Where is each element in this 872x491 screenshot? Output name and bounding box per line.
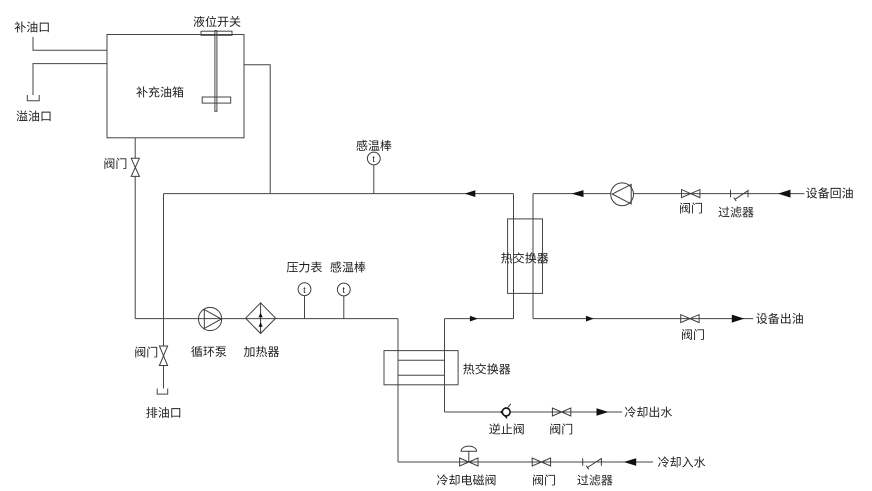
pump top right <box>611 183 634 206</box>
svg-text:过滤器: 过滤器 <box>718 204 754 221</box>
valve VB2 阀门 <box>681 315 690 323</box>
wire segment to vertical HX <box>445 318 514 320</box>
svg-text:液位开关: 液位开关 <box>193 13 241 30</box>
wire tank to 溢油口 overflow <box>33 64 107 95</box>
arrow terminal A8 冷却入水 <box>624 458 637 466</box>
wire left loop vertical <box>163 194 165 346</box>
svg-text:阀门: 阀门 <box>103 155 127 172</box>
svg-text:阀门: 阀门 <box>532 472 556 489</box>
filter F2 过滤器 <box>582 458 584 466</box>
svg-text:溢油口: 溢油口 <box>16 107 52 124</box>
level switch body on tank top <box>201 31 232 35</box>
svg-text:循环泵: 循环泵 <box>191 343 227 360</box>
heat exchanger 热交换器 vertical <box>508 219 543 294</box>
valve VB1 阀门 <box>682 190 691 198</box>
valve VB3 阀门 <box>552 408 561 416</box>
valve VB4 阀门 <box>532 458 541 466</box>
wire tank outlet right <box>244 65 270 194</box>
svg-text:压力表: 压力表 <box>286 259 322 276</box>
svg-text:逆止阀: 逆止阀 <box>489 421 525 438</box>
wire main supply pipe <box>135 318 398 320</box>
arrow terminal A7 冷却出水 <box>597 408 609 416</box>
gauge 感温棒 <box>337 283 350 296</box>
svg-text:阀门: 阀门 <box>549 421 573 438</box>
port 溢油口 bracket <box>27 95 39 101</box>
svg-text:t: t <box>342 285 345 296</box>
gauge 压力表 <box>298 283 311 296</box>
wire return pipe left segment <box>164 193 514 195</box>
tank 补充油箱 <box>107 35 244 138</box>
wire cooling out line <box>445 411 623 413</box>
svg-text:排油口: 排油口 <box>146 404 182 421</box>
svg-text:冷却出水: 冷却出水 <box>624 404 672 421</box>
level switch rod <box>215 31 217 112</box>
wire vertical HX right pass <box>532 194 534 319</box>
sensor 感温棒 top circle <box>367 152 380 165</box>
svg-text:感温棒: 感温棒 <box>330 259 366 276</box>
svg-text:加热器: 加热器 <box>244 343 280 360</box>
valve V1 阀门 under tank <box>131 158 139 167</box>
filter F1 过滤器 <box>730 190 732 198</box>
svg-text:设备出油: 设备出油 <box>756 310 804 327</box>
level switch float <box>202 97 231 103</box>
svg-text:热交换器: 热交换器 <box>501 250 549 267</box>
arrow flow right A5 <box>586 316 594 322</box>
wire return pipe right segment <box>533 193 611 195</box>
svg-text:设备回油: 设备回油 <box>806 184 854 201</box>
valve V2 阀门 drain <box>159 346 167 356</box>
svg-text:过滤器: 过滤器 <box>577 472 613 489</box>
wire tank drain upper <box>134 138 136 159</box>
wire 补油口 inlet to tank <box>33 37 107 50</box>
svg-text:感温棒: 感温棒 <box>356 137 392 154</box>
heat exchanger 热交换器 horizontal <box>384 351 458 385</box>
svg-text:补油口: 补油口 <box>14 18 50 35</box>
svg-text:热交换器: 热交换器 <box>463 361 511 378</box>
check valve 逆止阀 <box>506 404 511 411</box>
wire vertical HX left pass <box>513 194 515 319</box>
svg-text:补充油箱: 补充油箱 <box>136 84 184 101</box>
wire cooling in line <box>398 461 653 463</box>
svg-text:t: t <box>372 154 375 165</box>
wire HX right pass vertical <box>444 319 446 412</box>
wire to drain port <box>163 366 165 389</box>
port 排油口 bracket <box>157 389 168 395</box>
wire supply down into horizontal HX <box>397 319 399 462</box>
svg-text:冷却入水: 冷却入水 <box>658 454 706 471</box>
svg-text:阀门: 阀门 <box>134 344 158 361</box>
svg-text:阀门: 阀门 <box>679 200 703 217</box>
arrow flow right A4 <box>470 316 478 322</box>
arrow terminal A6 设备出油 <box>732 315 745 323</box>
svg-text:t: t <box>303 285 306 296</box>
wire tank drain lower <box>134 176 136 318</box>
wire pump to valve <box>634 193 805 195</box>
heater 加热器 diamond <box>246 303 276 334</box>
wire sensor stem <box>373 165 375 194</box>
arrow flow left A1 <box>465 190 476 197</box>
arrow terminal A3 设备回油 <box>778 190 791 198</box>
arrow flow left A2 <box>572 190 584 197</box>
wire 设备出油 line <box>533 318 753 320</box>
solenoid valve 冷却电磁阀 <box>460 458 469 466</box>
svg-text:冷却电磁阀: 冷却电磁阀 <box>437 472 497 489</box>
svg-text:阀门: 阀门 <box>681 326 705 343</box>
pump 循环泵 <box>199 307 222 330</box>
